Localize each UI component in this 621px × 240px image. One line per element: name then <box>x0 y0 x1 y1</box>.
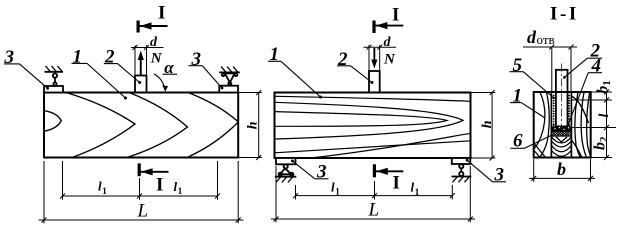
b dimension (bottom) <box>529 159 595 182</box>
right dimension chain b1 / l / b2 <box>572 90 617 161</box>
L dimension (left view) <box>39 161 244 223</box>
rod 2 (middle view) <box>369 71 380 93</box>
hole walls <box>550 92 552 158</box>
support 3 (right, roller above beam) <box>219 72 240 92</box>
svg-text:d: d <box>150 35 158 50</box>
section mark I (top, middle view) <box>374 21 403 34</box>
svg-text:d: d <box>527 27 537 47</box>
svg-text:h: h <box>246 121 261 129</box>
d_otv dimension <box>523 45 577 92</box>
svg-text:I-I: I-I <box>550 4 579 25</box>
force N (down) <box>373 48 375 61</box>
svg-text:2: 2 <box>598 136 610 142</box>
rod (bolt) in section <box>556 70 568 127</box>
svg-text:α: α <box>164 58 174 77</box>
rod 2 (bolt) above beam <box>135 76 147 93</box>
svg-text:2: 2 <box>337 49 348 70</box>
svg-text:l: l <box>597 114 612 118</box>
beam 1 outline (middle view) <box>275 93 471 159</box>
section mark I (bottom, middle view) <box>374 164 403 177</box>
section mark I (top, left view) <box>138 21 168 33</box>
svg-text:1: 1 <box>178 186 183 196</box>
h dimension (middle view) <box>471 90 496 161</box>
svg-text:I: I <box>393 173 400 194</box>
angle alpha arc <box>154 74 177 90</box>
svg-text:отв: отв <box>537 32 555 47</box>
support 3 (right bottom, pendulum link) <box>452 158 472 177</box>
svg-text:1: 1 <box>415 187 420 197</box>
svg-text:I: I <box>156 175 163 196</box>
svg-text:h: h <box>480 120 495 128</box>
svg-text:1: 1 <box>102 186 107 196</box>
support 3 (left bottom, pinned w/ rollers) <box>275 158 296 177</box>
svg-text:2: 2 <box>104 47 115 68</box>
glue dots (item 5) <box>553 95 570 127</box>
nut item 6 (cross-hatched) <box>551 131 571 136</box>
svg-text:1: 1 <box>335 187 340 197</box>
grain under hole (U curves) <box>552 137 572 156</box>
svg-text:d: d <box>384 35 392 50</box>
svg-text:1: 1 <box>601 80 613 86</box>
l1 dimension (middle view) <box>293 181 455 200</box>
beam 1 outline (left view) <box>44 93 238 158</box>
svg-text:b: b <box>557 159 566 179</box>
svg-text:b: b <box>592 142 609 150</box>
grain right column <box>572 92 591 158</box>
h dimension (left view) <box>238 90 262 160</box>
section mark I (bottom, left view) <box>139 163 168 176</box>
d dimension (left view) <box>131 45 164 75</box>
centerline <box>561 64 563 127</box>
svg-text:I: I <box>158 3 165 24</box>
hatch ticks (left support) <box>46 66 63 72</box>
force N arrow (up) <box>140 57 142 76</box>
svg-text:N: N <box>383 51 396 67</box>
svg-text:3: 3 <box>4 47 15 68</box>
svg-text:L: L <box>137 201 149 222</box>
svg-text:5: 5 <box>513 55 523 76</box>
svg-text:1: 1 <box>73 47 83 68</box>
d dimension (middle view) <box>364 45 397 70</box>
svg-text:b: b <box>594 86 611 94</box>
washer item 4 (blackened in section) <box>551 126 571 131</box>
svg-text:1: 1 <box>513 86 523 107</box>
svg-text:L: L <box>368 200 380 221</box>
L dimension (middle view) <box>271 166 475 222</box>
support 3 (left, pendulum link above beam) <box>44 72 63 93</box>
wood block (section) <box>534 70 591 158</box>
svg-text:3: 3 <box>191 49 202 70</box>
grain left column <box>534 92 550 158</box>
wood grain (left view) <box>44 93 238 158</box>
l1 dimension (left view) <box>60 161 220 200</box>
svg-text:N: N <box>150 50 163 66</box>
svg-text:I: I <box>392 5 399 26</box>
wood grain (middle view) <box>275 96 471 158</box>
